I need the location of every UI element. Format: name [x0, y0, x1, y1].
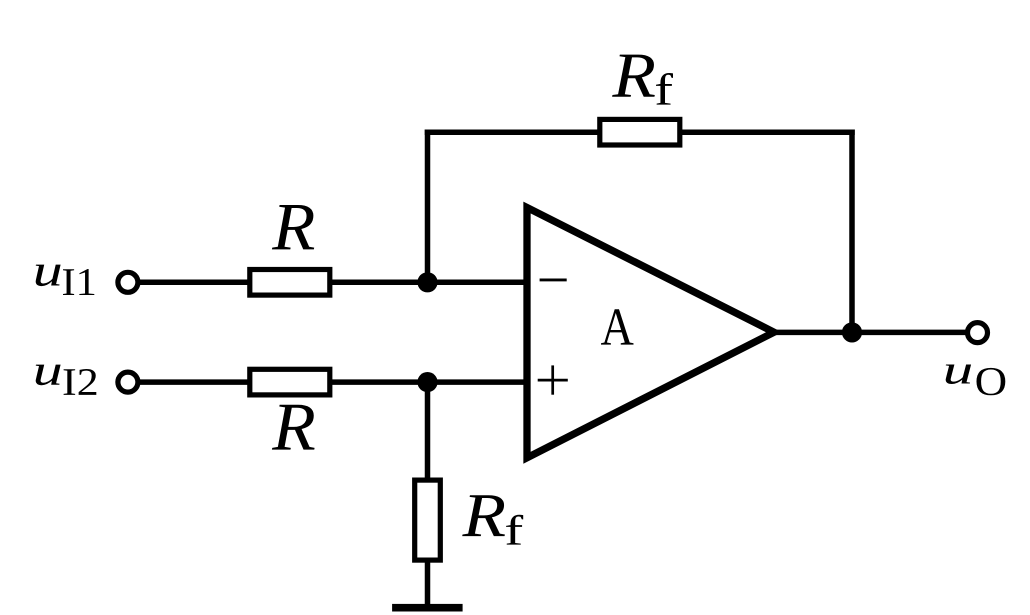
label R (input 2 resistor) [272, 405, 315, 450]
resistor Rf2 (vertical, to ground) [415, 480, 441, 560]
label R (input 1 resistor) [272, 205, 314, 249]
label Rf (ground resistor) [462, 495, 505, 536]
wire input 2 from terminal to op-amp non-inverting input [139, 379, 528, 385]
label Rf (feedback resistor) [612, 55, 655, 97]
label u_O [946, 364, 971, 384]
resistor Rf feedback (top) [600, 119, 680, 145]
node at inverting input junction [417, 272, 437, 292]
terminal u_I1 [118, 272, 138, 292]
terminal u_O [968, 323, 988, 343]
op-amp plus sign horizontal (non-inverting input) [538, 379, 568, 382]
wire feedback right vertical [849, 130, 855, 333]
terminal u_I2 [118, 372, 138, 392]
wire output from op-amp to terminal [770, 330, 966, 336]
resistor R1 (input 1) [250, 270, 330, 296]
wire from Rf2 down to ground [425, 561, 431, 607]
node at output junction [842, 322, 862, 342]
wire input 1 from terminal to op-amp inverting input [139, 280, 528, 286]
op-amp plus sign vertical [551, 365, 554, 394]
label u_I1 [36, 265, 61, 286]
op-amp gain label A [601, 309, 634, 344]
op-amp minus sign (inverting input) [540, 278, 567, 281]
ground [392, 604, 463, 612]
resistor R2 (input 2) [250, 369, 330, 395]
node at non-inverting input junction [417, 372, 437, 392]
label u_I2 [36, 365, 61, 386]
op-amp U1 triangle [527, 208, 774, 458]
wire from non-inverting node down to Rf2 [425, 382, 431, 480]
wire feedback top horizontal [425, 129, 855, 135]
wire feedback left vertical [425, 130, 431, 283]
